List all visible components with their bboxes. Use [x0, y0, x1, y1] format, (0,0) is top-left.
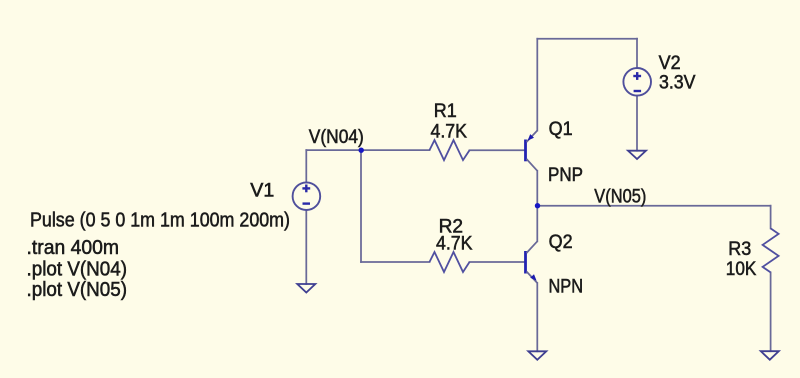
svg-text:PNP: PNP — [548, 165, 583, 186]
resistor R2 — [430, 252, 470, 272]
svg-text:4.7K: 4.7K — [431, 121, 468, 142]
svg-text:NPN: NPN — [549, 277, 584, 298]
voltage source V2 — [623, 68, 651, 96]
svg-text:V2: V2 — [659, 53, 681, 74]
wire: V2 bottom stem — [636, 96, 638, 151]
svg-text:.plot V(N05): .plot V(N05) — [27, 279, 128, 301]
svg-text:V(N05): V(N05) — [594, 187, 646, 208]
wire: node N04 horizontal run — [306, 149, 429, 151]
ground under R3 — [761, 351, 779, 360]
svg-text:Q2: Q2 — [549, 232, 573, 253]
svg-text:R3: R3 — [728, 239, 751, 260]
resistor R3 — [763, 228, 779, 272]
ground under V2 — [628, 151, 646, 159]
wire: V2 top stem — [636, 39, 638, 68]
svg-text:.tran 400m: .tran 400m — [27, 237, 120, 259]
wire: V1 top stem — [305, 150, 307, 182]
transistor Q2 (NPN) — [526, 241, 538, 283]
svg-text:Q1: Q1 — [549, 119, 573, 140]
ground under Q2 emitter — [528, 351, 546, 360]
wire: R3 top stem — [770, 206, 772, 229]
wire: R3 bottom stem — [770, 272, 772, 351]
transistor Q1 (PNP) — [526, 131, 538, 171]
wire: branch to R2 — [361, 261, 430, 263]
wire: Q1 emitter vertical up — [536, 39, 538, 131]
junction node N04 — [359, 148, 364, 153]
svg-text:10K: 10K — [726, 259, 757, 280]
svg-text:3.3V: 3.3V — [659, 73, 696, 94]
wire: node N05 horizontal run — [537, 205, 770, 207]
wire: Q1 collector vertical down to node N05 — [536, 171, 538, 206]
svg-text:V(N04): V(N04) — [309, 127, 364, 148]
svg-text:V1: V1 — [250, 181, 274, 202]
wire: branch down from N04 — [360, 150, 362, 262]
wire: Q2 collector vertical up to node N05 — [536, 206, 538, 242]
ground under V1 — [297, 284, 315, 293]
wire: V1 bottom stem — [305, 210, 307, 284]
svg-text:R1: R1 — [434, 101, 457, 122]
wire: R1 to Q1 base — [470, 149, 525, 151]
junction node N05 — [535, 203, 540, 208]
svg-text:.plot V(N04): .plot V(N04) — [27, 258, 128, 280]
resistor R1 — [430, 140, 470, 160]
svg-text:Pulse (0 5 0 1m 1m 100m 200m): Pulse (0 5 0 1m 1m 100m 200m) — [30, 209, 290, 231]
wire: top rail — [537, 38, 637, 40]
wire: Q2 emitter vertical down — [536, 283, 538, 351]
wire: R2 to Q2 base — [470, 261, 525, 263]
voltage source V1 — [293, 182, 321, 210]
svg-text:4.7K: 4.7K — [436, 234, 473, 255]
